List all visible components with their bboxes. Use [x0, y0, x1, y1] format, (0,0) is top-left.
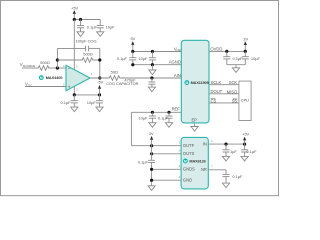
ground [222, 156, 229, 161]
wire feedback left vertical [56, 48, 58, 68]
-5V arrow [98, 85, 101, 89]
ADC U2 MAX11905 [181, 40, 209, 123]
svg-text:AIN: AIN [174, 73, 181, 78]
svg-text:10µF: 10µF [106, 24, 116, 29]
wire feedback right vertical [99, 48, 101, 78]
ground [71, 107, 78, 112]
capacitor 0.1uF (OVDD) [226, 51, 228, 56]
svg-text:500Ω: 500Ω [83, 52, 93, 57]
capacitor 10uF (V- bypass) [99, 95, 101, 101]
svg-text:0.1µF: 0.1µF [138, 160, 149, 165]
5V arrow [131, 41, 134, 45]
junction [224, 143, 227, 146]
svg-text:+5V: +5V [71, 5, 78, 10]
wire OUTS [152, 153, 182, 155]
svg-text:GNDS: GNDS [183, 167, 195, 172]
voltage reference U3 MAX6126 [181, 137, 208, 189]
junction [151, 63, 154, 66]
CPU block [239, 81, 251, 120]
junction output node [98, 76, 101, 79]
junction [150, 168, 153, 171]
wire to AIN [121, 77, 181, 79]
op-amp U1 MAX4400 [66, 65, 90, 90]
svg-text:10µF: 10µF [251, 56, 261, 61]
3V arrow [150, 136, 153, 140]
capacitor 0.1uF (V+ bypass) [80, 20, 82, 26]
capacitor 10uF (REF) [151, 112, 153, 116]
svg-text:0.1µF: 0.1µF [158, 115, 169, 120]
wire op-amp V- pin 2 down [73, 86, 75, 95]
wire vertical cap-GNDS-GND-gnd [151, 163, 153, 186]
+5V arrow [73, 10, 76, 14]
junction [150, 152, 153, 155]
wire DOUT [209, 93, 239, 95]
ground EP [194, 123, 196, 126]
3V arrow [244, 41, 247, 45]
junction inverting node [56, 66, 59, 69]
svg-text:MAX11905: MAX11905 [191, 81, 209, 85]
wire NR [208, 169, 226, 171]
node 3V reference vertical to REF pin [130, 112, 132, 145]
wire R1 to inverting input [50, 67, 66, 69]
ground [97, 32, 104, 37]
junction [73, 93, 76, 96]
svg-text:NR: NR [201, 167, 207, 172]
svg-text:SCK: SCK [229, 80, 238, 85]
svg-text:M: M [184, 159, 187, 163]
junction [79, 18, 82, 21]
border frame [1, 1, 279, 196]
capacitor 10uF (OVDD) [244, 51, 246, 56]
svg-text:+5V: +5V [242, 132, 249, 137]
capacitor 1uF (ref IN) [225, 144, 227, 150]
junction [225, 50, 228, 53]
svg-text:−: − [68, 66, 71, 71]
svg-text:0.1µF: 0.1µF [87, 24, 98, 29]
svg-text:500Ω: 500Ω [40, 60, 50, 65]
junction [73, 18, 76, 21]
wire REF rail [131, 111, 181, 113]
svg-text:OUTF: OUTF [183, 143, 195, 148]
junction [98, 93, 101, 96]
junction [151, 50, 154, 53]
wire op-amp output [90, 77, 108, 79]
svg-text:100pF COG: 100pF COG [75, 39, 96, 44]
ground [222, 183, 229, 188]
capacitor 10uF (VDD bypass) [151, 52, 153, 58]
junction [167, 111, 170, 114]
svg-text:EP: EP [191, 118, 197, 123]
junction [150, 144, 153, 147]
junction [98, 58, 101, 61]
+5V arrow [243, 137, 246, 141]
ground [151, 65, 153, 70]
svg-text:10µF: 10µF [138, 56, 148, 61]
wire vertical OUTF-OUTS-cap [151, 146, 153, 161]
wire VDD rail [133, 51, 182, 53]
junction [56, 58, 59, 61]
svg-text:10µF: 10µF [87, 100, 97, 105]
ground [235, 65, 237, 68]
svg-text:0.1µF: 0.1µF [61, 100, 72, 105]
junction [150, 76, 153, 79]
capacitor 0.1uF (NR) [225, 170, 227, 175]
junction [151, 111, 154, 114]
svg-text:50Ω: 50Ω [111, 69, 118, 74]
logo MAX11905 [185, 80, 190, 85]
svg-text:MAX6126: MAX6126 [189, 160, 205, 164]
svg-text:M: M [185, 81, 188, 85]
junction [150, 179, 153, 182]
ground [149, 123, 156, 128]
logo MAX6126 [183, 159, 188, 164]
ground [241, 156, 248, 161]
capacitor 0.1uF (REF) [168, 112, 170, 116]
svg-text:OVDD: OVDD [210, 46, 222, 51]
wire input to R1 [22, 67, 37, 69]
svg-text:M: M [40, 76, 43, 80]
ground [77, 32, 84, 37]
ground [148, 186, 155, 191]
wire OVDD rail [209, 50, 245, 52]
wire bottom bypass rail [74, 94, 99, 96]
svg-text:IN: IN [203, 141, 207, 146]
capacitor 0.1uF (VDD bypass) [132, 52, 134, 58]
svg-text:0.1µF: 0.1µF [232, 174, 243, 179]
svg-text:0.1µF: 0.1µF [246, 149, 257, 154]
svg-text:3V: 3V [149, 131, 154, 136]
svg-text:5V: 5V [131, 36, 136, 41]
svg-text:MAX4400: MAX4400 [46, 75, 63, 80]
wire +5V rail down to op-amp pin 5 [73, 20, 75, 70]
wire GNDS [152, 168, 182, 170]
wire AGND rail [133, 64, 182, 66]
wire top bypass rail [74, 19, 100, 21]
capacitor 0.1uF (ref out) [148, 159, 155, 161]
svg-text:CPU: CPU [241, 98, 249, 103]
ground [148, 87, 155, 92]
svg-text:MISO: MISO [227, 89, 238, 94]
logo MAX4400 [39, 75, 44, 80]
svg-text:+: + [68, 84, 71, 89]
wire IN rail [208, 143, 244, 145]
svg-text:OUTS: OUTS [183, 151, 195, 156]
junction [131, 63, 134, 66]
svg-text:3V: 3V [243, 36, 248, 41]
svg-text:AGND: AGND [169, 59, 181, 64]
wire cap common rail [227, 64, 246, 66]
junction [243, 143, 246, 146]
svg-text:0.1µF: 0.1µF [117, 56, 128, 61]
svg-text:10µF: 10µF [138, 115, 148, 120]
svg-text:COG CAPACITOR: COG CAPACITOR [106, 81, 139, 86]
ground [96, 107, 103, 112]
capacitor 10uF (V+ bypass) [99, 20, 101, 26]
svg-text:1µF: 1µF [230, 149, 237, 154]
svg-text:-5V: -5V [97, 80, 103, 85]
capacitor 0.1uF (ref IN) [244, 144, 246, 150]
capacitor 0.1uF (V- bypass) [73, 95, 75, 101]
ground [165, 123, 172, 128]
svg-text:0.1µF: 0.1µF [233, 56, 244, 61]
wire SCLK [209, 84, 239, 86]
svg-text:GND: GND [183, 177, 192, 182]
svg-text:REF: REF [172, 107, 181, 112]
wire GND [152, 179, 182, 181]
junction [131, 50, 134, 53]
wire CS [209, 102, 239, 104]
junction [244, 50, 247, 53]
wire VDC to non-inverting input [25, 86, 66, 88]
wire OUTF [131, 145, 181, 147]
